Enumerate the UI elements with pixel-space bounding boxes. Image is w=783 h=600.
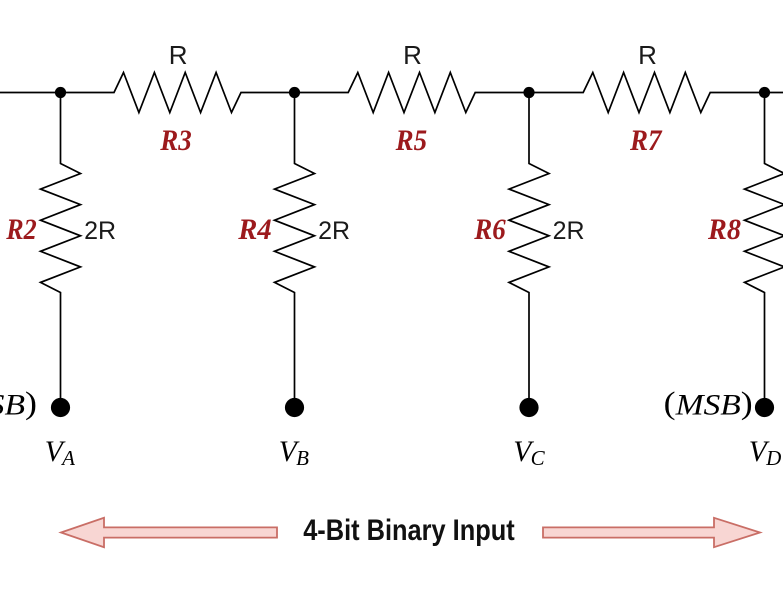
svg-text:R: R — [403, 40, 422, 70]
junction node A — [55, 87, 66, 98]
junction node C — [523, 87, 534, 98]
svg-text:R8: R8 — [707, 213, 741, 246]
svg-text:2R: 2R — [84, 217, 116, 245]
svg-text:(LSB): (LSB) — [0, 384, 37, 421]
resistor R2 (2R) branch with leads — [41, 93, 81, 399]
svg-text:R: R — [638, 40, 657, 70]
svg-text:4-Bit Binary Input: 4-Bit Binary Input — [303, 514, 515, 547]
terminal VC — [519, 398, 538, 417]
svg-text:(MSB): (MSB) — [664, 384, 753, 421]
wire node D to right edge — [765, 92, 783, 94]
terminal VB — [285, 398, 304, 417]
junction node B — [289, 87, 300, 98]
svg-text:R3: R3 — [159, 124, 191, 157]
wire left edge to node A — [0, 92, 61, 94]
resistor R4 (2R) branch with leads — [275, 93, 315, 399]
resistor R3 (R) with leads — [61, 73, 295, 113]
resistor R8 (2R) branch with leads — [745, 93, 783, 399]
svg-text:R5: R5 — [395, 124, 427, 157]
resistor R7 (R) with leads — [529, 73, 765, 113]
terminal VA — [51, 398, 70, 417]
svg-text:R6: R6 — [473, 213, 505, 246]
arrow right (toward MSB) — [543, 518, 760, 547]
svg-text:2R: 2R — [318, 217, 350, 245]
resistor R6 (2R) branch with leads — [509, 93, 549, 399]
svg-text:R7: R7 — [629, 124, 662, 157]
arrow left (toward LSB) — [61, 518, 277, 547]
terminal VD — [755, 398, 774, 417]
junction node D — [759, 87, 770, 98]
svg-text:R4: R4 — [237, 213, 271, 246]
svg-text:R: R — [169, 40, 188, 70]
svg-text:2R: 2R — [553, 217, 585, 245]
resistor R5 (R) with leads — [295, 73, 530, 113]
svg-text:R2: R2 — [5, 213, 36, 246]
